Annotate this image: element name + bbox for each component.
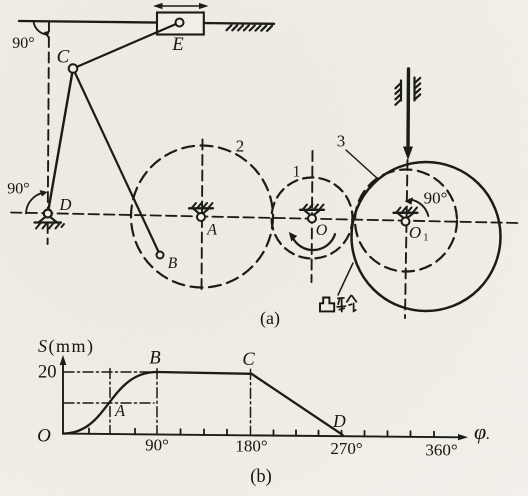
svg-text:(b): (b) [250, 467, 272, 487]
svg-text:1: 1 [293, 164, 301, 181]
svg-text:1: 1 [423, 233, 428, 244]
svg-text:90°: 90° [145, 436, 169, 455]
svg-text:20: 20 [38, 363, 57, 383]
svg-text:B: B [149, 349, 160, 369]
svg-text:90°: 90° [7, 181, 29, 198]
svg-text:O: O [37, 426, 51, 447]
svg-text:D: D [59, 195, 72, 214]
svg-text:270°: 270° [330, 439, 362, 458]
svg-text:D: D [332, 411, 346, 431]
svg-text:3: 3 [337, 132, 346, 151]
svg-text:90°: 90° [424, 189, 448, 208]
svg-text:(a): (a) [260, 308, 280, 329]
svg-text:S(mm): S(mm) [38, 336, 95, 357]
svg-text:A: A [206, 222, 217, 239]
svg-text:180°: 180° [235, 437, 267, 456]
svg-text:90°: 90° [12, 35, 34, 52]
svg-text:B: B [168, 255, 178, 272]
svg-text:E: E [171, 35, 183, 55]
svg-text:C: C [57, 47, 70, 68]
svg-text:360°: 360° [425, 441, 457, 460]
svg-text:O: O [409, 223, 421, 242]
svg-text:C: C [242, 350, 255, 370]
svg-text:2: 2 [236, 137, 245, 156]
svg-text:O: O [316, 222, 328, 239]
svg-text:A: A [114, 401, 126, 420]
